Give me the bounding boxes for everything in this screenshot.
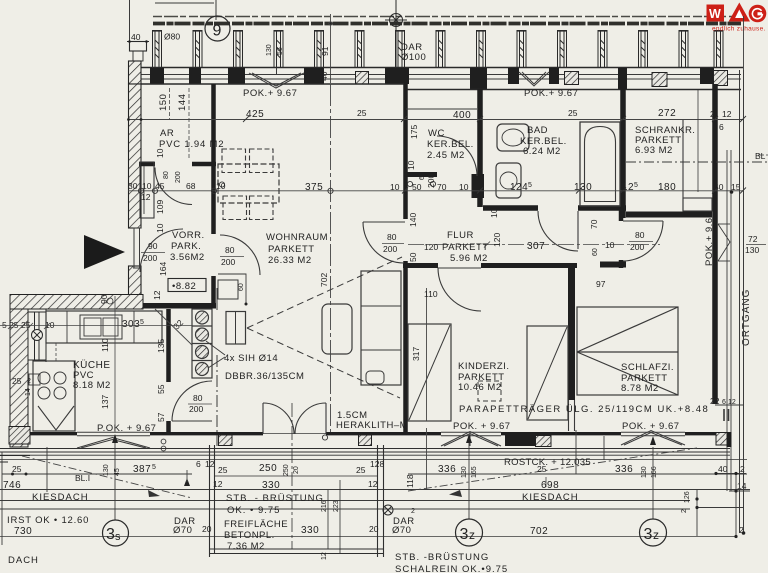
- cabinet rounded: [322, 304, 352, 354]
- bathtub: [580, 122, 620, 206]
- svg-text:70: 70: [589, 219, 599, 229]
- svg-text:130: 130: [641, 466, 648, 478]
- svg-text:375: 375: [305, 182, 323, 193]
- svg-text:20: 20: [202, 524, 212, 534]
- svg-text:166: 166: [651, 466, 658, 478]
- svg-text:200: 200: [383, 244, 397, 254]
- svg-text:2: 2: [710, 109, 715, 119]
- svg-text:135: 135: [156, 339, 166, 353]
- svg-text:2: 2: [411, 508, 415, 515]
- svg-text:702: 702: [319, 273, 329, 287]
- furniture: [29, 109, 768, 446]
- svg-text:109: 109: [155, 200, 165, 214]
- vertical dim line x=425 (317): [426, 288, 428, 490]
- svg-text:Ø70: Ø70: [173, 525, 192, 536]
- svg-text:80: 80: [387, 232, 397, 242]
- svg-text:DACH: DACH: [8, 555, 39, 566]
- svg-text:40: 40: [718, 464, 728, 474]
- wall AR/VORR east: [211, 84, 216, 308]
- svg-text:130: 130: [574, 182, 592, 193]
- svg-text:14: 14: [737, 481, 747, 491]
- axis circles 3s 3z 3z: [103, 519, 667, 546]
- svg-text:PARKETT: PARKETT: [268, 244, 315, 255]
- svg-text:387: 387: [133, 464, 151, 475]
- svg-text:10: 10: [605, 240, 615, 250]
- svg-text:12: 12: [368, 479, 378, 489]
- svg-text:KER.BEL.: KER.BEL.: [427, 139, 474, 150]
- svg-text:5: 5: [528, 182, 532, 189]
- left exterior wall (hatched): [129, 61, 142, 296]
- washbasin 2 / WM: [496, 163, 521, 198]
- kitchen chain line y=325: [0, 298, 192, 345]
- svg-text:110: 110: [100, 338, 110, 352]
- circled 9 axis marker: [205, 16, 230, 41]
- kitchen door arc + leaf: [172, 420, 212, 422]
- svg-text:BL: BL: [755, 151, 766, 161]
- svg-text:5: 5: [2, 320, 7, 330]
- svg-text:5: 5: [152, 464, 156, 471]
- WAG logo: [707, 3, 767, 33]
- svg-text:303: 303: [122, 319, 140, 330]
- svg-text:20: 20: [369, 524, 379, 534]
- svg-text:POK.+ 9.67: POK.+ 9.67: [704, 212, 715, 266]
- inner wall line: [141, 83, 404, 85]
- svg-text:10: 10: [45, 320, 55, 330]
- svg-text:124: 124: [510, 182, 528, 193]
- svg-text:702: 702: [530, 526, 548, 537]
- bottom exterior wall: [0, 427, 747, 460]
- svg-text:STB. -BRÜSTUNG: STB. -BRÜSTUNG: [395, 552, 489, 563]
- svg-text:endlich zuhause.: endlich zuhause.: [712, 26, 766, 33]
- bottom vertical dim/axis lines: [2, 430, 697, 545]
- svg-text:164: 164: [158, 262, 168, 276]
- bottom area dimension texts row1 (y~472): [12, 459, 745, 478]
- svg-text:91: 91: [320, 46, 330, 56]
- wardrobe at wall: [361, 271, 401, 385]
- svg-text:50: 50: [412, 182, 422, 192]
- entrance door arc: [140, 229, 183, 272]
- top band: terrace edge lines: [129, 17, 743, 68]
- svg-text:130: 130: [745, 245, 759, 255]
- right edge window mark: [718, 224, 730, 261]
- svg-text:4x SIH Ø14: 4x SIH Ø14: [224, 353, 278, 364]
- svg-text:70: 70: [437, 182, 447, 192]
- svg-text:317: 317: [411, 347, 421, 361]
- svg-text:2.45 M2: 2.45 M2: [427, 150, 465, 161]
- KINDERZI / SCHLAFZI wall: [568, 268, 575, 400]
- top edge small connector lines: [130, 0, 217, 42]
- KINDERZI bed: [408, 324, 451, 421]
- svg-text:2: 2: [740, 464, 745, 474]
- passage line: [216, 355, 218, 446]
- top wall solid piers: [150, 68, 714, 90]
- svg-text:KINDERZI.: KINDERZI.: [458, 361, 509, 372]
- FLUR dim chain y=244: [408, 242, 660, 248]
- svg-text:25: 25: [21, 320, 31, 330]
- terrace posts row: [153, 30, 724, 67]
- WC door arc: [437, 136, 477, 176]
- svg-text:128: 128: [370, 459, 384, 469]
- svg-text:POK.+ 9.67: POK.+ 9.67: [243, 88, 297, 99]
- svg-text:307: 307: [527, 241, 545, 252]
- svg-text:250: 250: [283, 464, 290, 476]
- svg-text:12: 12: [213, 479, 223, 489]
- svg-text:SCHLAFZI.: SCHLAFZI.: [621, 362, 674, 373]
- svg-text:PARKETT: PARKETT: [442, 242, 489, 253]
- axis arrows: [112, 434, 656, 486]
- svg-text:5: 5: [140, 319, 144, 326]
- svg-text:336: 336: [615, 464, 633, 475]
- window opening tilt marks (top wall): [249, 68, 549, 88]
- svg-text:10: 10: [489, 208, 499, 218]
- svg-text:12: 12: [205, 459, 215, 469]
- svg-text:FREIFLÄCHE: FREIFLÄCHE: [224, 519, 288, 530]
- dimension chain y=190.5: [128, 181, 746, 193]
- svg-text:SCHALREIN OK.•9.75: SCHALREIN OK.•9.75: [395, 564, 508, 573]
- svg-text:POK. + 9.67: POK. + 9.67: [622, 421, 680, 432]
- svg-text:KIESDACH: KIESDACH: [522, 492, 579, 503]
- svg-text:330: 330: [262, 480, 280, 491]
- svg-text:ROSTCK. + 12.035: ROSTCK. + 12.035: [504, 457, 591, 468]
- svg-text:200: 200: [426, 174, 436, 188]
- svg-text:PVC 1.94 M2: PVC 1.94 M2: [159, 139, 224, 150]
- svg-text:126: 126: [684, 491, 691, 503]
- svg-text:20: 20: [293, 466, 300, 474]
- svg-text:STB. - BRÜSTUNG: STB. - BRÜSTUNG: [226, 493, 324, 504]
- SCHLAFZI bed: [577, 307, 678, 395]
- svg-text:200: 200: [189, 404, 203, 414]
- kitchen vertical dim lines: [56, 296, 115, 432]
- bottom area horizontal row lines: [0, 474, 750, 537]
- svg-text:Ø70: Ø70: [392, 525, 411, 536]
- svg-text:22: 22: [710, 396, 720, 406]
- BAD/SCHRANKR wall: [620, 85, 626, 218]
- svg-text:30: 30: [128, 181, 138, 191]
- svg-text:•8.82: •8.82: [172, 281, 196, 292]
- svg-text:25: 25: [356, 465, 366, 475]
- svg-text:250: 250: [259, 463, 277, 474]
- svg-text:VORR.: VORR.: [172, 230, 205, 241]
- svg-text:POK. + 9.67: POK. + 9.67: [453, 421, 511, 432]
- svg-text:130: 130: [103, 464, 110, 476]
- svg-text:730: 730: [14, 526, 32, 537]
- KIESDACH labels: [32, 457, 691, 513]
- svg-text:80: 80: [225, 245, 235, 255]
- svg-text:118: 118: [405, 474, 415, 488]
- KINDERZI closet: [527, 326, 568, 420]
- svg-text:BAD: BAD: [527, 125, 548, 136]
- AR door arc: [155, 168, 192, 205]
- svg-text:z: z: [469, 528, 475, 542]
- left corner wall stub + 40 dim: [127, 40, 149, 61]
- drainage fall lines: [22, 448, 697, 498]
- BAD south wall: [483, 205, 538, 211]
- svg-text:BL.I: BL.I: [75, 473, 90, 483]
- dimension chain y=119: [127, 88, 746, 160]
- svg-text:25: 25: [357, 108, 367, 118]
- svg-text:6.93 M2: 6.93 M2: [635, 145, 673, 156]
- right edge dots: [11, 190, 745, 538]
- DAR drain symbols bottom: [383, 505, 393, 515]
- svg-text:KIESDACH: KIESDACH: [32, 492, 89, 503]
- washbasin 1: [497, 124, 529, 151]
- svg-text:HERAKLITH–M: HERAKLITH–M: [336, 420, 408, 431]
- +8.82 boxed label: [168, 279, 206, 293]
- WC south wall: [404, 172, 437, 177]
- terrace FREIFLAECHE box: [210, 403, 385, 557]
- FLUR south / KINDERZI north wall: [403, 263, 438, 268]
- svg-text:12: 12: [152, 290, 162, 300]
- svg-text:5: 5: [634, 182, 638, 189]
- svg-text:57: 57: [156, 412, 166, 422]
- kitchen north wall hatched: [10, 295, 143, 310]
- svg-text:698: 698: [541, 480, 559, 491]
- FLUR-WOHNRAUM door arc + leaf: [363, 221, 405, 223]
- svg-text:137: 137: [100, 395, 110, 409]
- svg-text:746: 746: [3, 480, 21, 491]
- svg-text:25: 25: [9, 320, 19, 330]
- svg-text:150: 150: [158, 94, 169, 111]
- svg-text:P.OK. + 9.67: P.OK. + 9.67: [97, 423, 156, 434]
- svg-text:80: 80: [193, 393, 203, 403]
- svg-text:60: 60: [419, 172, 426, 180]
- svg-text:2: 2: [27, 378, 31, 385]
- kitchen counter left + stove: [33, 361, 75, 431]
- dashed ceiling box: [478, 381, 501, 401]
- sill lines: [0, 449, 747, 460]
- svg-text:POK.+ 9.67: POK.+ 9.67: [524, 88, 578, 99]
- svg-text:12: 12: [321, 552, 328, 560]
- svg-text:40: 40: [714, 182, 724, 192]
- svg-text:80: 80: [163, 171, 170, 179]
- svg-text:6: 6: [196, 459, 201, 469]
- wall hatched piers bottom: [9, 427, 728, 447]
- svg-text:140: 140: [408, 213, 418, 227]
- svg-text:110: 110: [424, 289, 438, 299]
- BAD door arc + leaf: [577, 211, 579, 249]
- svg-text:W: W: [709, 7, 721, 21]
- svg-text:DBBR.36/135CM: DBBR.36/135CM: [225, 371, 304, 382]
- room labels: [73, 125, 709, 431]
- SCHRANKR south wall: [626, 212, 712, 218]
- svg-text:60: 60: [238, 283, 245, 291]
- WC cistern line: [406, 108, 477, 110]
- KINDERZI door arc + leaf: [438, 267, 481, 269]
- svg-text:s: s: [115, 531, 121, 543]
- svg-text:90: 90: [148, 241, 158, 251]
- svg-text:8.18 M2: 8.18 M2: [73, 380, 111, 391]
- svg-text:130: 130: [266, 44, 273, 56]
- VORR-WOHNRAUM door arc: [220, 235, 260, 275]
- roof drain vent symbol DAR: [385, 0, 407, 67]
- hatched wall blocks: [356, 71, 728, 87]
- svg-text:26.33 M2: 26.33 M2: [268, 255, 312, 266]
- top band dimension labels: [131, 32, 661, 83]
- svg-text:97: 97: [596, 279, 606, 289]
- svg-text:120: 120: [492, 233, 502, 247]
- door arcs: [38, 136, 663, 434]
- svg-text:3: 3: [106, 526, 115, 543]
- svg-text:6: 6: [719, 122, 724, 132]
- wall WOHNRAUM / WC+FLUR+KINDERZI: [403, 84, 408, 432]
- right edge boundary lines: [697, 16, 768, 537]
- svg-text:7.36 M2: 7.36 M2: [227, 541, 265, 552]
- svg-text:200: 200: [221, 257, 235, 267]
- balcony double door arcs: [263, 403, 294, 434]
- svg-text:3: 3: [460, 526, 469, 543]
- AR closet: [140, 162, 154, 218]
- svg-text:120: 120: [424, 242, 438, 252]
- svg-text:200: 200: [630, 242, 644, 252]
- kitchen west wall hatched with window: [10, 309, 28, 447]
- svg-text:130: 130: [461, 466, 468, 478]
- svg-text:55: 55: [156, 384, 166, 394]
- svg-text:12: 12: [728, 399, 736, 406]
- svg-text:PARAPETTRÄGER ÜLG. 25/119CM UK: PARAPETTRÄGER ÜLG. 25/119CM UK.+8.48: [459, 404, 709, 415]
- svg-text:72: 72: [748, 234, 758, 244]
- svg-text:25: 25: [12, 376, 22, 386]
- right side dims: [710, 234, 759, 406]
- svg-text:425: 425: [246, 109, 264, 120]
- wall VORR south: [141, 303, 216, 309]
- svg-text:Ø80: Ø80: [164, 32, 180, 42]
- svg-text:OK. • 9.75: OK. • 9.75: [227, 505, 280, 516]
- svg-text:WOHNRAUM: WOHNRAUM: [266, 232, 328, 243]
- svg-text:10: 10: [216, 181, 226, 191]
- wall window glazing double lines: [141, 75, 741, 80]
- svg-text:IRST OK • 12.60: IRST OK • 12.60: [7, 515, 89, 526]
- svg-text:2: 2: [681, 509, 688, 513]
- svg-text:56: 56: [277, 47, 284, 55]
- svg-text:25: 25: [218, 465, 228, 475]
- interior walls: [10, 84, 715, 447]
- bottom level annotation texts: [7, 493, 744, 573]
- bottom-left corner wall piece: [0, 456, 30, 463]
- top exterior wall band with windows: [141, 68, 741, 90]
- svg-text:PARK.: PARK.: [171, 241, 201, 252]
- svg-text:5.96 M2: 5.96 M2: [450, 253, 488, 264]
- svg-text:50: 50: [408, 252, 418, 262]
- svg-text:3: 3: [644, 526, 653, 543]
- SCHRANKR closet: [682, 119, 684, 211]
- east exterior wall: [712, 84, 718, 404]
- svg-text:6.24 M2: 6.24 M2: [523, 146, 561, 157]
- svg-text:175: 175: [409, 125, 419, 139]
- svg-text:6: 6: [722, 399, 726, 406]
- VORR corner shelf + 60 dim: [218, 274, 248, 306]
- bottom area dimension texts row2 (y~488): [3, 473, 747, 491]
- svg-text:216: 216: [321, 500, 328, 512]
- FLUR-SCHLAFZI door arc + leaf: [623, 220, 663, 222]
- vertical axis line x=330 (91/40/702): [322, 84, 333, 440]
- POK level labels: [97, 88, 766, 434]
- svg-text:10: 10: [406, 160, 416, 170]
- dimension numbers main chains: [2, 94, 741, 422]
- kitchen counter top: [46, 311, 162, 343]
- svg-text:12: 12: [141, 192, 151, 202]
- svg-text:68: 68: [186, 181, 196, 191]
- SIH column (4 fixtures): [192, 309, 212, 378]
- svg-text:10: 10: [155, 148, 165, 158]
- svg-text:10: 10: [155, 223, 165, 233]
- svg-text:60: 60: [592, 248, 599, 256]
- svg-text:3.56M2: 3.56M2: [170, 252, 205, 263]
- svg-text:165: 165: [471, 466, 478, 478]
- svg-text:330: 330: [301, 525, 319, 536]
- sideboard: [226, 312, 246, 345]
- FLUR east wall stubs: [619, 208, 624, 268]
- kitchen east wall: [166, 309, 171, 434]
- svg-text:14: 14: [25, 388, 32, 396]
- svg-text:200: 200: [175, 171, 182, 183]
- svg-text:12: 12: [722, 109, 732, 119]
- svg-text:10: 10: [390, 182, 400, 192]
- axis dim line x=330 top: [329, 14, 332, 83]
- svg-text:45: 45: [114, 468, 121, 476]
- bottom windows glazing: [77, 432, 685, 436]
- dining table: [218, 164, 279, 203]
- svg-text:9: 9: [213, 23, 222, 40]
- svg-text:10: 10: [459, 182, 469, 192]
- dashed cross marks (DBBR): [247, 257, 402, 398]
- svg-text:WC: WC: [428, 128, 445, 139]
- svg-text:10: 10: [142, 181, 152, 191]
- svg-text:25: 25: [568, 108, 578, 118]
- svg-text:AR: AR: [160, 128, 174, 139]
- entrance arrow (big black triangle): [84, 235, 125, 269]
- entrance door opening frame: [133, 228, 141, 268]
- svg-text:336: 336: [438, 464, 456, 475]
- svg-text:BETONPL.: BETONPL.: [224, 530, 275, 541]
- door size labels: [141, 230, 653, 414]
- svg-text:180: 180: [658, 182, 676, 193]
- kitchen balcony window swing: [38, 406, 74, 430]
- svg-text:Ø100: Ø100: [401, 52, 426, 63]
- svg-text:12: 12: [622, 182, 634, 193]
- svg-text:80: 80: [635, 230, 645, 240]
- svg-text:223: 223: [333, 500, 340, 512]
- bottom window tilt marks: [77, 431, 685, 449]
- svg-text:ORTGANG: ORTGANG: [741, 289, 752, 346]
- svg-text:FLUR: FLUR: [447, 230, 474, 241]
- chairs: [222, 149, 273, 220]
- svg-text:400: 400: [453, 110, 471, 121]
- svg-text:10.46 M2: 10.46 M2: [458, 382, 502, 393]
- svg-text:25: 25: [12, 464, 22, 474]
- svg-text:200: 200: [143, 253, 157, 263]
- wall AR south: [139, 162, 155, 167]
- svg-text:144: 144: [177, 94, 188, 111]
- svg-text:8.78 M2: 8.78 M2: [621, 383, 659, 394]
- svg-text:40: 40: [131, 32, 141, 42]
- svg-text:45: 45: [155, 181, 165, 191]
- svg-text:z: z: [653, 528, 659, 542]
- svg-text:272: 272: [658, 108, 676, 119]
- WC/BAD wall: [477, 89, 483, 207]
